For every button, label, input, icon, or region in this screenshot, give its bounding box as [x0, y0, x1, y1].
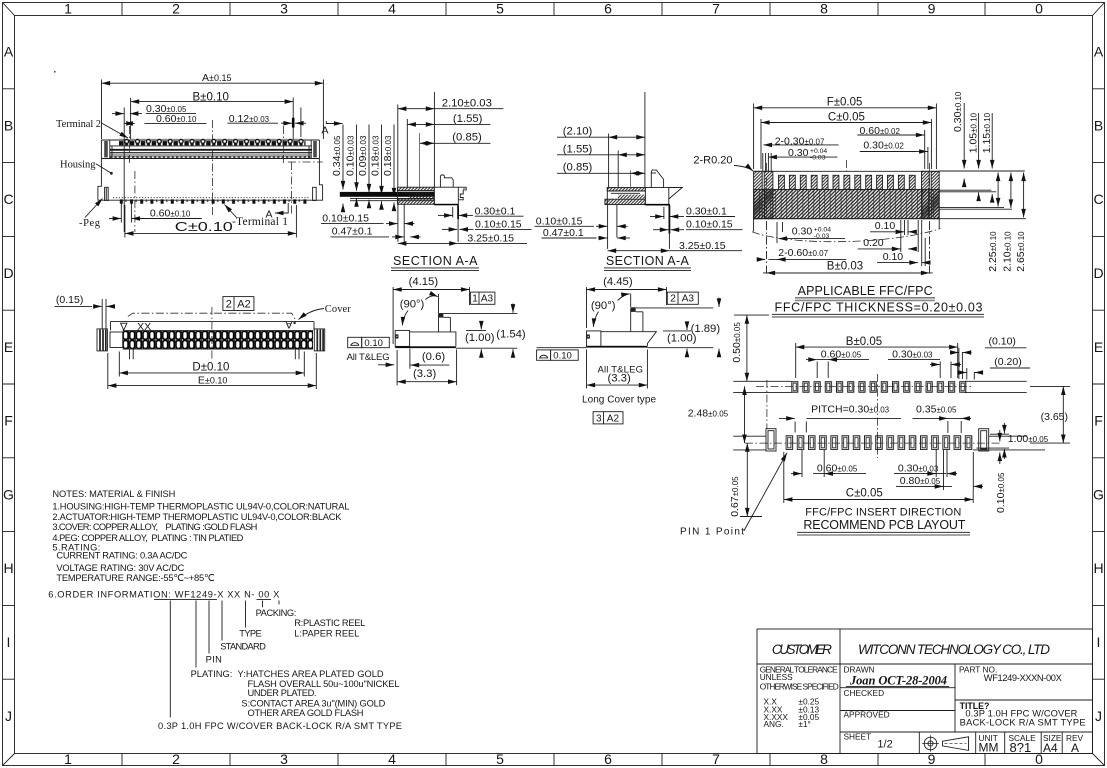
svg-text:A: A: [285, 319, 292, 331]
top row guide lines: [733, 381, 1026, 392]
svg-text:(4.15): (4.15): [409, 276, 439, 288]
svg-text:0.30±0.1: 0.30±0.1: [475, 205, 516, 217]
svg-text:Joan OCT-28-2004: Joan OCT-28-2004: [849, 673, 947, 687]
comb centerlines dashdot: [767, 160, 930, 222]
svg-text:(3.3): (3.3): [608, 373, 631, 385]
svg-text:0.09±0.03: 0.09±0.03: [357, 135, 369, 176]
svg-text:WF1249-XXXN-00X: WF1249-XXXN-00X: [984, 673, 1062, 683]
svg-text:7: 7: [712, 751, 720, 767]
svg-text:MM: MM: [979, 740, 999, 754]
svg-text:7: 7: [712, 1, 720, 17]
svg-text:3.COVER: COPPER ALLOY, PLAT: 3.COVER: COPPER ALLOY, PLATING :GOLD FLA…: [52, 522, 257, 532]
housing top strip: [101, 140, 319, 159]
base ref line v1: [456, 347, 517, 349]
svg-text:BACK-LOCK R/A SMT TYPE: BACK-LOCK R/A SMT TYPE: [960, 718, 1086, 728]
svg-text:A3: A3: [682, 294, 695, 305]
svg-text:0.47±0.1: 0.47±0.1: [332, 226, 373, 238]
svg-text:SECTION A-A: SECTION A-A: [606, 254, 690, 268]
cover view centerline: [211, 307, 213, 360]
svg-text:TEMPERATURE RANGE:-55℃~+85℃: TEMPERATURE RANGE:-55℃~+85℃: [56, 573, 214, 583]
svg-text:2.10±0.03: 2.10±0.03: [442, 97, 492, 109]
layer leader lines with arrows: [343, 125, 394, 211]
svg-text:(0.15): (0.15): [56, 294, 83, 306]
dimension 0.50±0.05 rotated: [731, 322, 743, 363]
top pad row: [791, 381, 970, 393]
anchor pad left: [766, 429, 776, 451]
svg-text:3: 3: [596, 413, 602, 424]
svg-text:0: 0: [1035, 1, 1043, 17]
actuator block left v1: [395, 330, 409, 346]
svg-text:0.30±0.02: 0.30±0.02: [863, 139, 904, 151]
band left bracket: [110, 332, 123, 348]
B right extension with bold pin mark: [292, 98, 294, 141]
border column ticks: [122, 3, 985, 766]
svg-text:A3: A3: [481, 294, 494, 305]
svg-text:0.30±0.03: 0.30±0.03: [898, 462, 939, 474]
top ref line v1: [444, 313, 518, 315]
svg-text:0.47±0.1: 0.47±0.1: [543, 227, 584, 239]
svg-text:H: H: [1093, 560, 1103, 576]
title block horizontals: [757, 664, 1093, 732]
tolerance cell text: [760, 664, 839, 729]
rotated dim 2.25±0.10: [987, 231, 999, 272]
terminal 2 pin row: [119, 139, 306, 146]
svg-text:1.15±0.10: 1.15±0.10: [981, 112, 993, 153]
svg-text:0.10: 0.10: [875, 220, 896, 232]
svg-text:3: 3: [280, 751, 288, 767]
svg-text:A: A: [1071, 741, 1079, 755]
FFC top edge: [754, 170, 940, 172]
svg-text:0.10±0.05: 0.10±0.05: [995, 472, 1007, 513]
svg-text:D±0.10: D±0.10: [192, 362, 229, 374]
bottom thick lead v1: [395, 346, 456, 348]
svg-text:3.25±0.15: 3.25±0.15: [467, 232, 514, 244]
svg-text:4: 4: [388, 751, 396, 767]
svg-text:0.30±0.10: 0.30±0.10: [952, 91, 964, 132]
svg-text:0.18±0.03: 0.18±0.03: [369, 135, 381, 176]
svg-text:0.10: 0.10: [364, 338, 383, 349]
legs below s2: [608, 205, 617, 249]
svg-text:B: B: [1094, 118, 1103, 134]
peg left: [105, 187, 109, 200]
contact band: [123, 331, 313, 350]
svg-text:UNLESS: UNLESS: [760, 672, 793, 682]
svg-text:(90°): (90°): [400, 299, 425, 311]
flatness flag v1: [348, 337, 390, 349]
svg-text:5: 5: [496, 751, 504, 767]
svg-text:TYPE: TYPE: [239, 628, 261, 638]
svg-text:I: I: [1097, 634, 1101, 650]
svg-text:2-0.60±0.07: 2-0.60±0.07: [778, 247, 828, 259]
top row centerline: [756, 385, 973, 387]
svg-text:D: D: [3, 265, 13, 281]
svg-text:2.48±0.05: 2.48±0.05: [688, 407, 729, 419]
svg-text:0.60±0.05: 0.60±0.05: [817, 462, 858, 474]
bottom row centerline: [745, 442, 1000, 444]
svg-text:6: 6: [604, 1, 612, 17]
actuator block left v2: [587, 331, 601, 347]
svg-text:(1.55): (1.55): [453, 113, 483, 125]
svg-text:1.HOUSING:HIGH-TEMP THERMOPLAS: 1.HOUSING:HIGH-TEMP THERMOPLASTIC UL94V-…: [52, 502, 349, 512]
svg-text:STANDARD: STANDARD: [220, 641, 266, 651]
svg-text:0.34±0.05: 0.34±0.05: [331, 135, 343, 176]
svg-text:-Terminal 1: -Terminal 1: [232, 216, 288, 228]
svg-text:A4: A4: [1043, 741, 1058, 755]
svg-text:2: 2: [172, 1, 180, 17]
svg-text:A: A: [4, 44, 14, 60]
svg-text:0.10: 0.10: [883, 251, 904, 263]
svg-text:0.60±0.10: 0.60±0.10: [150, 208, 191, 220]
svg-text:5: 5: [496, 1, 504, 17]
pin centerlines: [129, 126, 131, 163]
order tree lines: [170, 601, 279, 718]
svg-text:C: C: [3, 191, 13, 207]
hatched housing block: [398, 187, 435, 204]
pin1 dashdot vertical: [766, 380, 768, 429]
svg-text:C: C: [1093, 191, 1103, 207]
legs below band: [130, 349, 300, 359]
base ref line v2: [537, 347, 714, 349]
title block outline: [757, 629, 1093, 754]
svg-text:I: I: [7, 634, 11, 650]
svg-text:F: F: [1094, 413, 1103, 429]
svg-text:E: E: [4, 339, 13, 355]
body main rect v2: [601, 332, 657, 346]
riser v1: [439, 315, 451, 332]
svg-text:C±0.05: C±0.05: [828, 112, 865, 124]
extension lines up s2: [608, 134, 610, 188]
svg-text:PIN: PIN: [206, 654, 222, 664]
FFC bottom edge: [754, 218, 940, 220]
pcb center line: [876, 374, 878, 458]
projection symbol: [922, 735, 968, 752]
comb right ref lines: [939, 171, 1026, 219]
title block verticals: [840, 629, 1062, 754]
svg-text:B: B: [4, 118, 13, 134]
white body block: [434, 187, 458, 204]
FFC contact teeth: [779, 175, 916, 189]
svg-text:1: 1: [64, 1, 72, 17]
box 2 A2: [223, 297, 254, 311]
svg-text:1.05±0.10: 1.05±0.10: [968, 112, 980, 153]
svg-text:ANG.: ANG.: [764, 719, 784, 729]
svg-text:(1.54): (1.54): [496, 329, 526, 341]
svg-text:2: 2: [172, 751, 180, 767]
border column numbers top: [64, 1, 1043, 17]
svg-text:FFC/FPC THICKNESS=0.20±0.03: FFC/FPC THICKNESS=0.20±0.03: [775, 300, 983, 314]
rotated dim 0.30±0.10 comb: [952, 91, 964, 132]
seat thick line s2: [645, 204, 670, 205]
svg-text:CUSTOMER: CUSTOMER: [772, 642, 832, 657]
svg-text:0.10: 0.10: [553, 350, 572, 361]
svg-text:E±0.10: E±0.10: [198, 375, 227, 387]
svg-text:(0.85): (0.85): [452, 132, 482, 144]
border column numbers bottom: [64, 751, 1043, 767]
svg-text:-0.03: -0.03: [810, 154, 826, 161]
box 2 A3: [667, 292, 698, 305]
svg-text:3: 3: [280, 1, 288, 17]
svg-text:G: G: [3, 487, 14, 503]
tall dim verticals right: [997, 173, 999, 207]
svg-text:APPLICABLE FFC/FPC: APPLICABLE FFC/FPC: [798, 284, 933, 298]
rotated dim 0.18±0.03 a: [369, 135, 381, 176]
svg-text:0.10±0.15: 0.10±0.15: [686, 218, 733, 230]
svg-text:CURRENT RATING: 0.3A AC/DC: CURRENT RATING: 0.3A AC/DC: [56, 551, 187, 561]
svg-text:C±0.05: C±0.05: [846, 488, 883, 500]
cover body sides: [111, 322, 315, 331]
svg-text:0.35±0.05: 0.35±0.05: [916, 404, 957, 416]
section cut line A: [288, 162, 323, 215]
strip right end cap: [309, 141, 317, 159]
svg-text:A: A: [1094, 44, 1104, 60]
svg-text:F: F: [4, 413, 13, 429]
svg-text:8: 8: [820, 1, 828, 17]
bottom row guide lines: [733, 436, 1045, 450]
svg-text:CHECKED: CHECKED: [844, 688, 885, 698]
svg-text:(0.10): (0.10): [989, 336, 1016, 348]
svg-text:2: 2: [670, 294, 676, 305]
svg-text:(90°): (90°): [591, 300, 616, 312]
svg-text:0.18±0.03: 0.18±0.03: [382, 135, 394, 176]
pin1 extension line: [123, 108, 125, 233]
svg-text:1.00±0.05: 1.00±0.05: [1008, 433, 1049, 445]
svg-text:2.65±0.10: 2.65±0.10: [1015, 231, 1027, 272]
svg-text:SECTION A-A: SECTION A-A: [393, 254, 478, 268]
border row letters right: [1093, 44, 1104, 725]
svg-text:0.30±0.03: 0.30±0.03: [892, 348, 933, 360]
svg-text:(1.55): (1.55): [563, 143, 593, 155]
dimension 0.10±0.05 rotated: [995, 472, 1007, 513]
svg-text:9: 9: [928, 1, 936, 17]
svg-text:(1.00): (1.00): [465, 332, 495, 344]
svg-text:Housing: Housing: [60, 160, 96, 171]
svg-text:VOLTAGE RATING: 30V AC/DC: VOLTAGE RATING: 30V AC/DC: [56, 563, 184, 573]
rotated dim 1.05±0.10 comb: [968, 112, 980, 153]
cover open outline dashdot: [128, 313, 296, 321]
white body block s2: [645, 188, 668, 205]
svg-text:C±0.10: C±0.10: [175, 220, 233, 234]
extension lines up: [397, 105, 399, 188]
svg-text:0.50±0.05: 0.50±0.05: [731, 322, 743, 363]
svg-text:NOTES: MATERIAL & FINISH: NOTES: MATERIAL & FINISH: [52, 489, 175, 499]
rotated dim 0.10±0.03: [344, 135, 356, 176]
strip left end cap: [104, 141, 112, 159]
strip dotted contact line: [110, 156, 311, 158]
weld symbol left: [121, 323, 127, 330]
right SMT foot: [458, 187, 466, 200]
svg-text:B±0.05: B±0.05: [846, 336, 882, 348]
svg-text:1: 1: [472, 294, 478, 305]
rotated dim 1.15±0.10 comb: [981, 112, 993, 153]
svg-text:0.60±0.05: 0.60±0.05: [821, 348, 862, 360]
order code underlines: [154, 598, 271, 600]
FFC break curve: [752, 229, 941, 242]
FFC side edges below: [754, 219, 940, 232]
left side lock: [97, 329, 107, 351]
svg-text:All T&LEG: All T&LEG: [347, 352, 390, 363]
svg-text:A2: A2: [237, 299, 250, 311]
bottom thick lead v2: [587, 346, 648, 348]
svg-text:4: 4: [388, 1, 396, 17]
svg-text:(0.85): (0.85): [563, 161, 593, 173]
housing body outline: [98, 140, 323, 200]
svg-text:±1°: ±1°: [798, 719, 811, 729]
svg-text:A2: A2: [607, 413, 620, 424]
svg-text:J: J: [1095, 708, 1102, 724]
svg-text:6: 6: [604, 751, 612, 767]
svg-text:J: J: [5, 708, 12, 724]
svg-text:OTHERWISE SPECIFIED: OTHERWISE SPECIFIED: [760, 682, 839, 692]
svg-text:SHEET: SHEET: [844, 732, 872, 742]
actuator riser s2: [651, 170, 663, 187]
svg-text:0.10±0.03: 0.10±0.03: [344, 135, 356, 176]
flatness flag v2: [537, 350, 579, 362]
svg-text:0.20: 0.20: [863, 237, 884, 249]
svg-text:2.ACTUATOR:HIGH-TEMP THERMOPLA: 2.ACTUATOR:HIGH-TEMP THERMOPLASTIC UL94V…: [52, 512, 342, 522]
svg-text:Long Cover type: Long Cover type: [582, 394, 656, 405]
svg-text:3.25±0.15: 3.25±0.15: [679, 240, 726, 252]
rotated dim 0.18±0.03 b: [382, 135, 394, 176]
svg-text:0.67±0.05: 0.67±0.05: [729, 476, 741, 517]
svg-text:A±0.15: A±0.15: [202, 72, 231, 84]
svg-text:E: E: [1094, 339, 1103, 355]
box 3 A2: [593, 412, 623, 425]
rotated dim 0.09±0.03: [357, 135, 369, 176]
svg-text:8?1: 8?1: [1010, 740, 1032, 755]
svg-text:A: A: [322, 125, 329, 137]
comb right dim verticals: [963, 103, 965, 169]
svg-text:PLATING: Y:HATCHES AREA PLATE: PLATING: Y:HATCHES AREA PLATED GOLD: [191, 669, 384, 679]
svg-text:0.10±0.15: 0.10±0.15: [322, 213, 369, 225]
svg-text:OTHER AREA GOLD FLASH: OTHER AREA GOLD FLASH: [248, 708, 364, 718]
svg-text:Terminal 2: Terminal 2: [56, 119, 101, 130]
svg-text:PACKING:: PACKING:: [256, 608, 297, 618]
seat thick line: [434, 204, 458, 205]
svg-text:B±0.03: B±0.03: [827, 261, 863, 273]
svg-text:G: G: [1093, 487, 1104, 503]
svg-text:F±0.05: F±0.05: [827, 97, 863, 109]
FFC left rail: [754, 171, 763, 218]
top ref line v2: [636, 307, 713, 309]
svg-text:0.30: 0.30: [792, 226, 813, 238]
svg-text:0.10±0.15: 0.10±0.15: [475, 218, 522, 230]
svg-text:2-R0.20: 2-R0.20: [693, 154, 732, 166]
svg-text:FFC/FPC INSERT DIRECTION: FFC/FPC INSERT DIRECTION: [805, 506, 961, 518]
svg-text:APPROVED: APPROVED: [844, 710, 890, 720]
terminal 1 dotted line: [113, 197, 310, 199]
legs below: [398, 204, 404, 242]
FPC stack entering section: [340, 192, 434, 197]
actuator top section1: [440, 175, 453, 187]
box 1 A3: [471, 292, 495, 305]
border row letters left: [3, 44, 14, 725]
bottom pad row: [786, 435, 976, 450]
terminal 1 tick row: [119, 199, 309, 204]
svg-text:(1.89): (1.89): [691, 323, 721, 335]
svg-text:(0.6): (0.6): [422, 351, 445, 363]
svg-text:2-0.30±0.07: 2-0.30±0.07: [775, 135, 825, 147]
cover flap s2: [669, 188, 683, 199]
anchor pad right: [979, 429, 989, 451]
FFC body band: [754, 189, 940, 218]
svg-text:(3.65): (3.65): [1041, 411, 1068, 423]
svg-text:(0.20): (0.20): [994, 356, 1021, 368]
svg-text:PITCH=0.30±0.03: PITCH=0.30±0.03: [811, 404, 890, 416]
dimension 0.67±0.05 rotated: [729, 476, 741, 517]
rotated dim 0.34±0.05: [331, 135, 343, 176]
svg-text:6.ORDER INFORMATION: WF1249-X: 6.ORDER INFORMATION: WF1249-X XX N- 00 X: [48, 589, 279, 599]
peg right: [313, 187, 317, 200]
svg-text:R:PLASTIC REEL: R:PLASTIC REEL: [294, 618, 365, 628]
cover top edge: [111, 321, 315, 323]
right side lock: [314, 329, 324, 351]
svg-text:UNDER PLATED.: UNDER PLATED.: [248, 688, 317, 698]
svg-text:L:PAPER REEL: L:PAPER REEL: [294, 628, 359, 638]
svg-text:2.10±0.10: 2.10±0.10: [1001, 231, 1013, 272]
hatched housing block s2: [605, 188, 646, 205]
body main rect v1: [410, 332, 456, 346]
riser v2: [631, 309, 643, 332]
svg-text:1/2: 1/2: [877, 739, 892, 751]
svg-text:-Peg: -Peg: [79, 218, 101, 229]
stray dot: [54, 71, 56, 73]
svg-text:H: H: [3, 560, 13, 576]
svg-text:0.30±0.1: 0.30±0.1: [686, 205, 727, 217]
svg-text:2: 2: [226, 299, 232, 311]
svg-text:PIN 1 Point: PIN 1 Point: [680, 526, 744, 537]
center line: [211, 120, 213, 215]
svg-text:XX: XX: [137, 321, 151, 333]
svg-text:Cover: Cover: [325, 304, 352, 315]
svg-text:(2.10): (2.10): [563, 126, 593, 138]
svg-text:RECOMMEND PCB LAYOUT: RECOMMEND PCB LAYOUT: [803, 518, 965, 532]
svg-text:1: 1: [64, 751, 72, 767]
border row ticks: [3, 89, 1105, 679]
svg-text:2.25±0.10: 2.25±0.10: [987, 231, 999, 272]
svg-text:D: D: [1093, 265, 1103, 281]
svg-text:0.3P 1.0H FPC W/COVER BACK-LOC: 0.3P 1.0H FPC W/COVER BACK-LOCK R/A SMT …: [158, 721, 402, 731]
svg-text:(4.45): (4.45): [603, 276, 633, 288]
svg-text:0.10±0.15: 0.10±0.15: [536, 215, 583, 227]
rotated dim 2.65±0.10: [1015, 231, 1027, 272]
svg-text:(3.3): (3.3): [413, 368, 436, 380]
FFC right rail: [922, 171, 930, 218]
svg-text:WITCONN TECHNOLOGY CO., LTD: WITCONN TECHNOLOGY CO., LTD: [858, 642, 1050, 657]
rotated dim 2.10±0.10: [1001, 231, 1013, 272]
svg-text:0.80±0.05: 0.80±0.05: [900, 475, 941, 487]
